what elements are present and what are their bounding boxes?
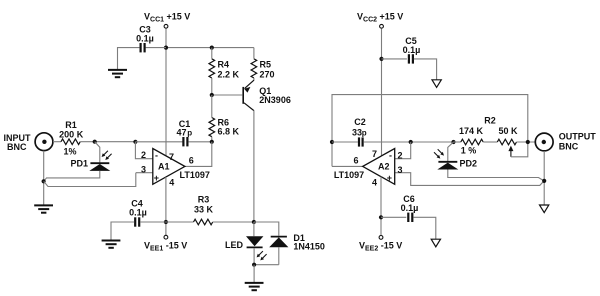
wire: inverting node down to pin 2 stub	[395, 142, 411, 159]
ground arrow (output BNC)	[540, 205, 549, 213]
A2 pin labels	[334, 149, 403, 188]
svg-text:0.1µ: 0.1µ	[403, 45, 421, 55]
ground (C3)	[108, 70, 127, 77]
input BNC connector	[35, 133, 53, 151]
svg-text:+: +	[387, 173, 392, 183]
ground arrow (C5)	[432, 80, 441, 88]
potentiometer 50K	[497, 139, 516, 145]
node: C2 left junction	[330, 140, 334, 144]
capacitor C6	[408, 213, 412, 222]
node: LED top junction	[252, 220, 256, 224]
svg-text:A1: A1	[158, 162, 170, 172]
resistor R4	[209, 59, 215, 78]
VCC2 terminal circle	[380, 24, 384, 28]
wire: A2 output to loop	[332, 165, 363, 167]
wire: C6 right to arrow ground	[413, 217, 436, 239]
wire: VCC2 node to C5	[382, 58, 407, 60]
svg-text:0.1µ: 0.1µ	[136, 34, 154, 44]
wire: R3 to LED node	[213, 221, 254, 223]
wire: top rail VCC1 to R5	[166, 47, 254, 49]
svg-text:4: 4	[372, 178, 377, 188]
resistor R2 174K	[461, 139, 483, 145]
svg-text:1N4150: 1N4150	[293, 241, 325, 251]
wire: C2 left stub	[332, 141, 358, 143]
node: PD2 / R2 junction	[451, 140, 455, 144]
node: output ground junction	[542, 179, 546, 183]
svg-text:200 K: 200 K	[59, 129, 84, 139]
node: VEE1 junction	[164, 220, 168, 224]
ground (C4)	[102, 241, 121, 248]
capacitor C5	[409, 54, 413, 63]
svg-text:6.8 K: 6.8 K	[218, 127, 240, 137]
wire: rail to R5 top	[253, 48, 255, 59]
svg-text:R5: R5	[260, 60, 272, 70]
wire: VCC2 terminal down to A2 pin 7	[381, 29, 383, 160]
wire: jog down to PD1 cathode	[95, 142, 100, 163]
node: R4/R6 base junction	[210, 93, 214, 97]
svg-text:BNC: BNC	[7, 142, 27, 152]
photodiode PD2	[434, 149, 458, 169]
node: C1/R6/output junction	[210, 140, 214, 144]
wire: C1 right to output node	[188, 141, 211, 143]
svg-text:0.1µ: 0.1µ	[401, 203, 419, 213]
svg-text:R3: R3	[198, 195, 210, 205]
wire: R4 bottom to base node	[211, 78, 213, 95]
wire: BNC to R1	[53, 141, 61, 143]
node: input ground junction	[42, 179, 46, 183]
svg-text:2N3906: 2N3906	[259, 95, 291, 105]
wire: Q1 collector down to LED node	[253, 110, 255, 222]
svg-text:p: p	[187, 128, 192, 137]
svg-text:A2: A2	[378, 162, 390, 172]
wire: R6 bottom to output node	[211, 137, 213, 142]
node: R4 top junction	[210, 46, 214, 50]
node: A2 inverting input junction	[409, 140, 413, 144]
svg-text:3: 3	[398, 165, 403, 175]
wire: jog down to PD2 cathode	[448, 142, 454, 161]
wire: LED node right to D1 top	[254, 222, 279, 236]
svg-text:+: +	[154, 173, 159, 183]
resistor R5	[251, 59, 257, 78]
wire: PD2 anode down and right to output ground bus	[448, 170, 544, 181]
wire: pin 3 stub	[136, 172, 153, 174]
VEE2 terminal circle	[379, 236, 383, 240]
svg-text:R4: R4	[218, 60, 230, 70]
op-amp A1 LT1097	[153, 149, 185, 185]
svg-text:R2: R2	[484, 116, 496, 126]
wire: C3 right to VCC1 rail	[146, 47, 166, 49]
wire: 50K to output BNC	[517, 141, 536, 143]
svg-text:LED: LED	[225, 240, 244, 250]
wire: BNC shield down to ground	[543, 151, 545, 205]
wire: VEE2 node to C6	[381, 216, 406, 218]
capacitor C3	[141, 43, 145, 52]
capacitor C1	[183, 137, 187, 146]
svg-text:LT1097: LT1097	[180, 170, 210, 180]
capacitor C2	[359, 137, 363, 146]
wire: feedback line to C1	[135, 141, 182, 143]
wire: rail to R4 top	[211, 48, 213, 59]
wire: C2 right to PD2 node	[364, 141, 454, 143]
svg-text:3: 3	[141, 164, 146, 174]
wire: 174K to 50K pot	[483, 141, 497, 143]
ground arrow (C6)	[431, 239, 440, 247]
svg-text:PD1: PD1	[70, 159, 88, 169]
svg-text:0.1µ: 0.1µ	[129, 208, 147, 218]
svg-text:7: 7	[372, 149, 377, 159]
node: loop / wiper / output junction	[526, 140, 530, 144]
svg-text:1 %: 1 %	[461, 146, 477, 156]
node: A1 inverting input junction	[133, 140, 137, 144]
ground (LED)	[245, 283, 264, 290]
A1 pin labels	[141, 150, 210, 188]
wire: C3 left to ground	[118, 48, 140, 69]
wire: C5 right to arrow ground	[414, 59, 437, 80]
svg-text:33: 33	[352, 127, 362, 137]
svg-text:C2: C2	[354, 117, 366, 127]
svg-text:4: 4	[169, 178, 174, 188]
svg-text:50 K: 50 K	[498, 126, 518, 136]
wire: base node to R6 top	[211, 95, 213, 118]
node: VEE2 / C6 junction	[379, 215, 383, 219]
wire: A2 pin 4 down to VEE2	[380, 177, 382, 236]
svg-text:7: 7	[169, 152, 174, 162]
output BNC connector	[535, 133, 553, 151]
diode D1 1N4150	[269, 237, 288, 265]
VCC1 terminal circle	[164, 24, 168, 28]
wire: VEE1 node to R3	[166, 221, 194, 223]
wire: output node down and left to A1 output	[185, 142, 212, 167]
wire: VCC1 terminal down to A1 pin 7	[165, 29, 167, 158]
node: VCC2 / C5 junction	[379, 57, 383, 61]
node: PD1 top junction	[93, 140, 97, 144]
pot wiper arrow	[508, 144, 527, 157]
resistor R6	[209, 118, 215, 137]
svg-text:33 K: 33 K	[194, 205, 214, 215]
op-amp A2 LT1097	[363, 149, 395, 185]
wire: ground node to A1 non-inverting input	[44, 173, 136, 187]
node: LED bottom junction	[252, 263, 256, 267]
resistor R3	[194, 219, 213, 225]
svg-text:-: -	[155, 151, 158, 161]
svg-text:1%: 1%	[63, 146, 76, 156]
wire: BNC shield down to ground	[43, 151, 45, 205]
svg-text:6: 6	[353, 156, 358, 166]
wire: C4 right to VEE1 node	[140, 221, 166, 223]
svg-text:BNC: BNC	[559, 142, 579, 152]
wire: inverting node down to pin 2 stub	[135, 142, 152, 159]
svg-text:LT1097: LT1097	[334, 170, 364, 180]
ground (input BNC)	[34, 205, 53, 212]
svg-text:2.2 K: 2.2 K	[218, 70, 240, 80]
wire: D1 bottom to LED bottom node	[254, 264, 279, 266]
svg-text:270: 270	[260, 70, 275, 80]
node: VCC1 junction	[164, 46, 168, 50]
svg-text:6: 6	[189, 156, 194, 166]
wire: C4 left to ground	[111, 222, 134, 240]
VEE1 terminal circle	[164, 235, 168, 239]
wire: A1 pin 4 down to VEE1	[165, 177, 167, 235]
wire: R1 to A1 inverting input node	[80, 141, 135, 143]
svg-text:PD2: PD2	[460, 159, 478, 169]
svg-text:OUTPUT: OUTPUT	[559, 132, 597, 142]
capacitor C4	[135, 217, 139, 226]
wire: pin 3 stub to output ground bus	[395, 173, 544, 186]
wire: PD1 anode down and left to BNC ground node	[44, 171, 100, 181]
photodiode PD1	[89, 151, 111, 171]
wire: base node to Q1 base	[212, 94, 243, 96]
wire: LED bottom node to ground	[253, 265, 255, 282]
wire: R2 node to 174K	[454, 141, 461, 143]
transistor Q1 2N3906	[243, 78, 254, 111]
LED	[246, 222, 267, 265]
svg-text:2: 2	[398, 150, 403, 160]
wire: feedback loop top	[332, 95, 528, 167]
svg-text:174 K: 174 K	[459, 126, 484, 136]
svg-text:2: 2	[141, 150, 146, 160]
svg-text:p: p	[362, 128, 367, 137]
svg-text:-: -	[389, 151, 392, 161]
resistor R1	[61, 139, 80, 145]
svg-text:47: 47	[176, 127, 186, 137]
